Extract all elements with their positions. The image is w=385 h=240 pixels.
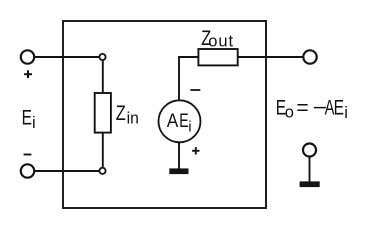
svg-text:E: E — [22, 105, 32, 129]
label Eo = -AEi — [276, 95, 348, 122]
resistor Zin — [95, 93, 111, 133]
wire source bottom to ground — [178, 142, 180, 168]
svg-text:A: A — [167, 110, 179, 131]
svg-text:E: E — [334, 95, 344, 119]
label Ei — [22, 105, 36, 132]
plus sign input — [24, 70, 32, 78]
wire Zout to output terminal — [238, 56, 304, 58]
label Zout — [201, 26, 234, 50]
wire node to Zin top — [102, 60, 104, 93]
wire reference terminal to ground — [309, 157, 311, 182]
source AEi circle — [159, 100, 201, 142]
output terminal — [303, 50, 316, 63]
input terminal bottom — [21, 164, 34, 177]
svg-text:o: o — [285, 103, 294, 121]
ground bar reference — [300, 181, 320, 187]
svg-text:out: out — [208, 33, 234, 51]
node top of Zin — [99, 54, 105, 60]
node bottom of Zin — [99, 168, 105, 174]
label Zin — [116, 101, 139, 127]
plus sign source — [192, 147, 199, 154]
wire input bottom — [34, 170, 99, 172]
input terminal top — [21, 50, 34, 63]
svg-text:Z: Z — [116, 101, 126, 124]
wire input top — [34, 56, 100, 58]
svg-text:E: E — [179, 110, 188, 132]
svg-text:i: i — [188, 118, 191, 135]
minus sign input — [24, 154, 32, 156]
output reference terminal — [303, 144, 316, 157]
resistor Zout — [198, 49, 237, 65]
wire Zin bottom to node — [102, 133, 104, 168]
svg-text:in: in — [127, 109, 139, 127]
wire source top to Zout — [179, 57, 199, 101]
enclosure box — [63, 21, 266, 208]
svg-text:i: i — [32, 114, 36, 132]
ground bar source — [169, 168, 188, 174]
label AEi — [167, 110, 192, 135]
minus sign source — [190, 89, 200, 91]
svg-text:=: = — [296, 96, 308, 119]
svg-text:i: i — [344, 104, 348, 122]
